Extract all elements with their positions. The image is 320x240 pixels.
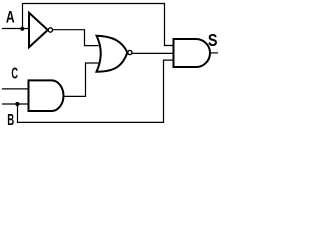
- wire U2 NOR output to U3 input: [132, 52, 173, 54]
- svg-text:S: S: [208, 30, 218, 50]
- wire A input: [3, 28, 29, 30]
- nor gate U2 body: [97, 36, 128, 72]
- node A junction dot: [20, 27, 24, 31]
- inverter U1 bubble: [48, 28, 52, 32]
- svg-text:C: C: [11, 66, 18, 83]
- wire C input: [3, 88, 29, 90]
- svg-text:B: B: [7, 112, 14, 129]
- wire U1 NOT output to U2 NOR top input: [53, 30, 98, 46]
- wire U4 AND output to U2 NOR bottom input: [64, 63, 99, 96]
- node B junction dot: [15, 102, 19, 106]
- svg-text:A: A: [6, 8, 15, 26]
- and gate U4 (inputs C,B): [29, 80, 64, 111]
- wire S output: [210, 52, 218, 54]
- inverter U1 (NOT gate): [29, 13, 48, 47]
- and gate U3 (output S): [174, 39, 211, 67]
- wire B input: [3, 103, 29, 105]
- wire B branch: drop, bottom run, riser to U3 bottom input: [18, 60, 174, 122]
- nor gate U2 bubble: [128, 50, 132, 54]
- wire A feedback: riser, top run, down to U3 top input: [23, 4, 174, 46]
